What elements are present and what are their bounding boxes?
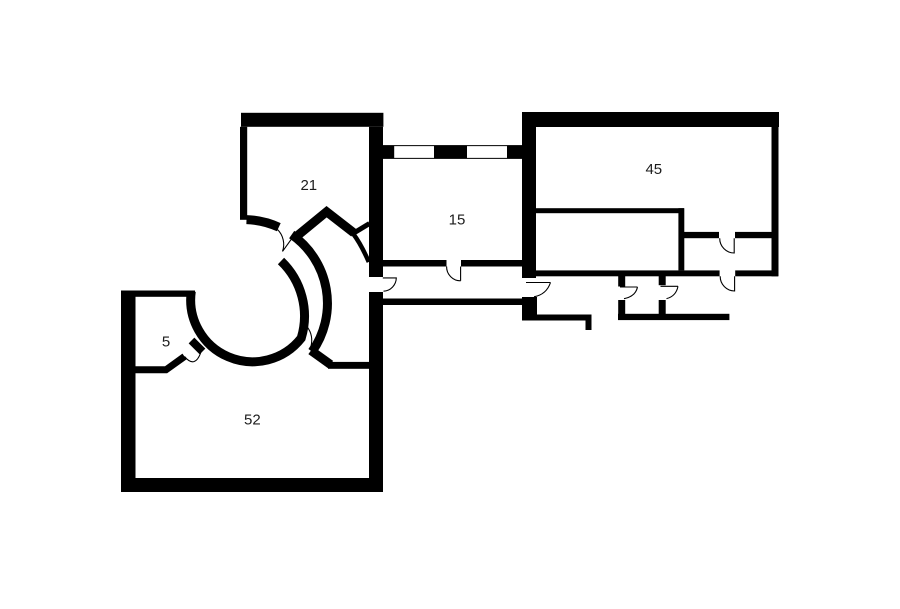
room 52 bottom wall	[121, 478, 383, 492]
svg-text:45: 45	[645, 161, 662, 178]
svg-text:5: 5	[162, 334, 170, 351]
door swing corridor top	[447, 267, 461, 281]
room 45 right wall	[772, 127, 779, 276]
room 45 top wall	[522, 112, 779, 127]
corridor bottom wall	[383, 299, 536, 306]
corridor top wall right part	[461, 260, 522, 267]
room 45 bottom wall left part	[536, 270, 720, 276]
room 5 bottom wall with diagonal	[135, 357, 185, 370]
room 45 bottom wall right part	[735, 270, 778, 276]
middle wall right part	[735, 232, 772, 238]
stub down at wall end	[586, 321, 592, 331]
inner room top wall	[536, 208, 684, 213]
left wall rooms 5/52	[121, 291, 136, 493]
svg-text:52: 52	[244, 412, 261, 429]
door swing room45 bottom	[720, 276, 734, 291]
dashed wall outline top	[383, 145, 523, 147]
closet middle wall upper stub	[659, 276, 666, 285]
wall between 15 and 45: lower part	[522, 297, 537, 321]
wall below corridor junction	[536, 315, 592, 321]
dashed wall outline bottom	[383, 157, 523, 159]
door swing closet 2	[661, 286, 679, 298]
middle wall left part	[684, 232, 719, 238]
wall between 15 and 45: upper part	[522, 127, 536, 278]
dashed wall dash 3	[507, 145, 523, 158]
svg-text:15: 15	[449, 212, 466, 229]
wall between 52 and corridor: lower part	[369, 292, 383, 492]
wall below round room east	[328, 362, 370, 369]
inner room right wall	[678, 208, 684, 270]
closet left wall lower part	[618, 300, 625, 319]
room 21 left wall	[240, 127, 247, 220]
room 5 top wall	[135, 291, 195, 297]
door jamb stub on circle (room 5 door)	[192, 341, 203, 352]
outer arc main segment	[292, 235, 328, 352]
corridor top wall left part	[383, 260, 447, 267]
closet left wall upper stub	[618, 276, 625, 287]
arc from chevron to wall	[353, 234, 369, 263]
closet middle wall lower part	[659, 300, 666, 319]
dashed wall dash 1	[383, 145, 394, 158]
closets bottom wall	[618, 314, 729, 320]
room 21 top wall	[241, 113, 383, 127]
door swing SE of round room	[299, 327, 312, 346]
svg-text:21: 21	[300, 177, 317, 194]
chevron walls	[297, 212, 354, 236]
diagonal wall SE	[311, 351, 331, 365]
dashed wall dash 2	[434, 145, 467, 158]
door swing closet 1	[620, 287, 638, 299]
door swing room 5	[185, 352, 202, 362]
door swing at wall x522	[526, 283, 551, 297]
wall between 21/52 and corridor: upper part	[369, 127, 383, 277]
spiral wall of round room	[191, 261, 305, 362]
stub chevron to wall	[353, 224, 370, 234]
door swing top of round room	[278, 230, 294, 252]
outer arc upper segment	[247, 220, 279, 228]
door swing middle wall	[720, 238, 735, 253]
door swing at wall x369	[383, 278, 397, 291]
